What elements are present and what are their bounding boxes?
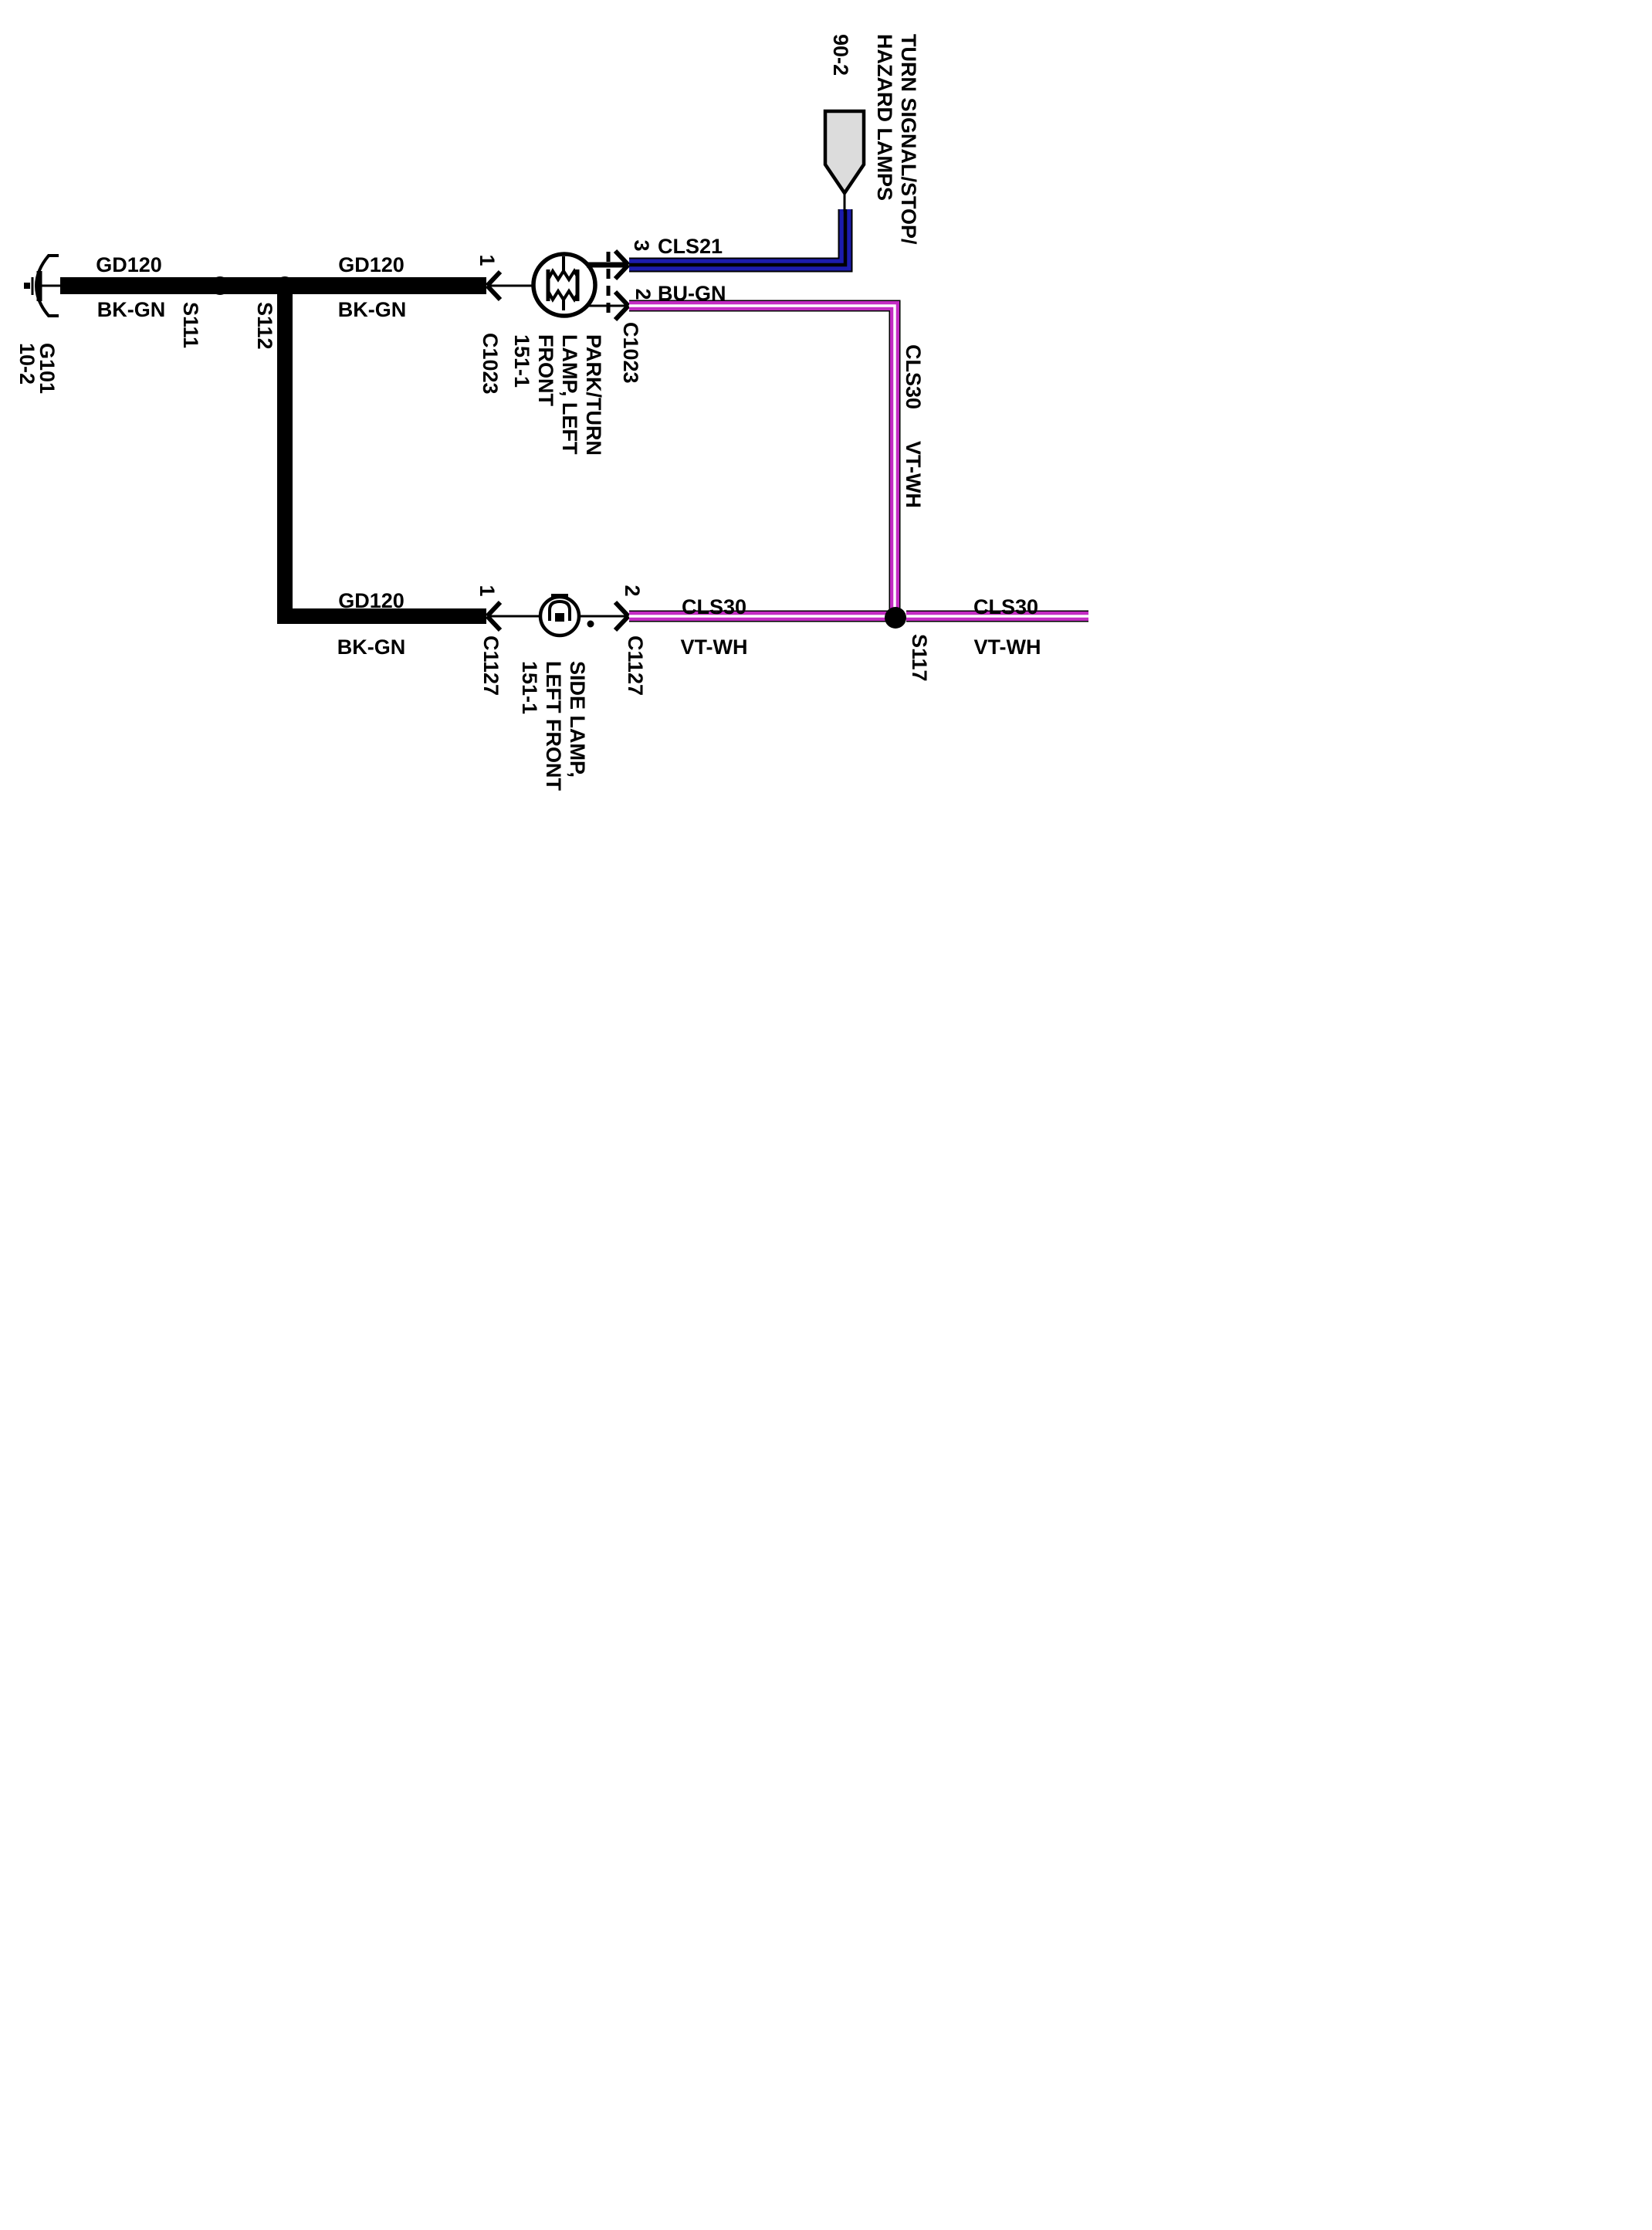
- wire thin C1023 to lamp: [487, 285, 535, 287]
- svg-text:HAZARD LAMPS: HAZARD LAMPS: [873, 34, 896, 201]
- svg-text:GD120: GD120: [338, 253, 405, 276]
- splice S111: [211, 276, 229, 295]
- svg-text:C1023: C1023: [619, 322, 642, 384]
- label SIDE LAMP, LEFT FRONT 151-1: [518, 661, 589, 791]
- svg-text:1: 1: [476, 254, 499, 266]
- svg-text:CLS30: CLS30: [973, 595, 1038, 619]
- svg-text:SIDE LAMP,: SIDE LAMP,: [566, 661, 589, 778]
- svg-text:C1023: C1023: [479, 333, 502, 395]
- wire thin C1127 to lamp: [487, 615, 541, 618]
- svg-text:GD120: GD120: [96, 253, 162, 276]
- svg-text:S117: S117: [908, 634, 931, 682]
- svg-text:2: 2: [621, 585, 644, 596]
- label PARK/TURN LAMP, LEFT FRONT 151-1: [510, 334, 605, 456]
- svg-text:TURN SIGNAL/STOP/: TURN SIGNAL/STOP/: [897, 34, 920, 245]
- svg-text:3: 3: [630, 239, 653, 251]
- lamp lead with dot: [579, 615, 627, 618]
- lamp pin 3 lead: [587, 263, 627, 268]
- ground G101: [24, 256, 62, 316]
- svg-text:CLS30: CLS30: [682, 595, 746, 619]
- svg-text:VT-WH: VT-WH: [974, 635, 1041, 659]
- svg-text:BK-GN: BK-GN: [97, 298, 166, 321]
- wire CLS30 VT-WH (side lamp left to S117): [629, 611, 895, 622]
- svg-text:10-2: 10-2: [15, 343, 39, 385]
- connector C1023 pin 2 arrow: [615, 292, 628, 320]
- svg-text:BK-GN: BK-GN: [338, 298, 407, 321]
- connector C1023 pin 3 arrow: [615, 251, 628, 279]
- off-page connector TURN SIGNAL/STOP/HAZARD LAMPS (top): [825, 111, 864, 193]
- svg-text:BK-GN: BK-GN: [337, 635, 406, 659]
- splice S117: [885, 607, 906, 629]
- connector dashes between pins: [607, 252, 611, 318]
- lead to connector 90-2: [844, 193, 846, 212]
- park/turn lamp left front bulb: [533, 254, 595, 316]
- wire GD120 BK-GN (G101 to C1023): [60, 277, 486, 294]
- lamp pin 2 lead: [586, 305, 627, 307]
- side lamp left front bulb: [540, 594, 579, 635]
- svg-text:LAMP, LEFT: LAMP, LEFT: [558, 334, 581, 455]
- wire CLS30 VT-WH (S117 to C2280E): [906, 611, 1088, 622]
- svg-text:1: 1: [476, 585, 499, 596]
- svg-text:2: 2: [631, 288, 655, 300]
- svg-text:PARK/TURN: PARK/TURN: [582, 334, 605, 456]
- connector C1127 pin 2 arrow: [615, 602, 628, 630]
- svg-text:FRONT: FRONT: [534, 334, 557, 406]
- svg-text:CLS21: CLS21: [658, 235, 723, 258]
- wire CLS30 VT-WH (BU-GN lamp to S117, magenta vertical): [629, 306, 895, 618]
- svg-text:151-1: 151-1: [518, 661, 541, 714]
- label TURN SIGNAL/STOP/ HAZARD LAMPS (top): [873, 34, 920, 245]
- svg-text:LEFT FRONT: LEFT FRONT: [542, 661, 565, 791]
- svg-text:151-1: 151-1: [510, 334, 533, 388]
- svg-text:GD120: GD120: [338, 589, 405, 612]
- connector C1127 pin 1 arrow: [487, 602, 500, 630]
- svg-text:VT-WH: VT-WH: [681, 635, 748, 659]
- label G101 10-2: [15, 343, 59, 394]
- svg-text:VT-WH: VT-WH: [902, 441, 925, 508]
- connector C1023 pin 1 arrow: [487, 272, 500, 300]
- svg-text:S112: S112: [253, 302, 276, 350]
- wire CLS21 BU-GN (blue): [629, 209, 845, 265]
- svg-text:S111: S111: [179, 302, 202, 348]
- wire GD120 BK-GN (S112 down to side lamp left): [277, 286, 486, 616]
- svg-text:90-2: 90-2: [829, 34, 852, 76]
- svg-text:C1127: C1127: [479, 635, 503, 696]
- svg-text:C1127: C1127: [624, 635, 647, 696]
- splice S112: [276, 276, 294, 295]
- svg-text:CLS30: CLS30: [902, 344, 925, 409]
